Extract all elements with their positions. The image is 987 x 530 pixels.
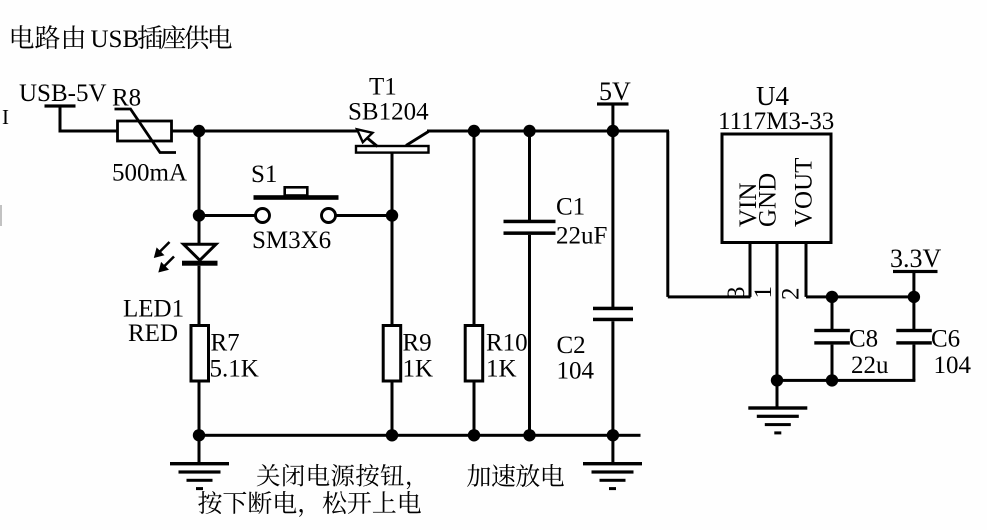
node junction GND pin xyxy=(771,374,783,386)
svg-text:500mA: 500mA xyxy=(112,160,187,187)
ic U4 1117M3-33 body xyxy=(722,134,831,243)
text T1 label xyxy=(369,74,397,101)
node junction S1/base/R9 xyxy=(386,209,398,221)
wire U4 pin 2 VOUT xyxy=(805,243,808,297)
text R8 label xyxy=(112,85,141,112)
wire ground rail xyxy=(198,434,641,437)
text C1 label xyxy=(556,194,585,221)
ground under C2 xyxy=(583,435,642,490)
wire 5V to C2 xyxy=(611,131,614,307)
wire U4 ground rail xyxy=(776,379,916,382)
text note: 关闭电源按钮， xyxy=(257,464,411,489)
text 104 value C2 xyxy=(557,358,595,385)
wire T1 base down xyxy=(391,153,394,216)
svg-text:1K: 1K xyxy=(486,356,517,383)
wire T1 to 5V rail xyxy=(427,130,669,133)
text VIN pin name xyxy=(735,183,762,227)
text S1 label xyxy=(251,161,277,188)
node junction C1 tap xyxy=(523,125,535,137)
capacitor C8 22u xyxy=(814,329,850,345)
text R7 label xyxy=(211,330,240,357)
svg-text:R7: R7 xyxy=(211,330,240,357)
node junction R7 ground xyxy=(193,429,205,441)
svg-text:R10: R10 xyxy=(486,330,528,357)
text pin number 1 xyxy=(750,286,777,299)
wire 5V rail to C1 xyxy=(528,131,531,220)
wire R7 to ground rail xyxy=(198,381,201,435)
wire U4 pin 1 GND xyxy=(776,243,779,381)
wire 5V rail to U4 VIN xyxy=(666,131,750,298)
text LED1 label xyxy=(123,296,184,323)
wire C1 to ground rail xyxy=(528,235,531,435)
power 5V terminal bar xyxy=(597,102,629,131)
text 3.3V label xyxy=(890,244,942,273)
node junction C8 tap xyxy=(826,291,838,303)
svg-text:2: 2 xyxy=(778,288,805,301)
text 5.1K value xyxy=(210,356,259,383)
text C2 label xyxy=(557,332,586,359)
resistor R7 5.1K xyxy=(191,326,209,382)
svg-text:R8: R8 xyxy=(112,85,141,112)
node junction R8/LED branch xyxy=(193,125,205,137)
text U4 label xyxy=(756,81,789,111)
svg-text:1117M3-33: 1117M3-33 xyxy=(718,108,834,135)
node junction C2 ground xyxy=(607,429,619,441)
svg-text:USB-5V: USB-5V xyxy=(19,80,107,107)
wire C2 to ground rail xyxy=(611,321,614,435)
text GND pin name xyxy=(755,173,782,227)
transistor T1 xyxy=(356,129,429,152)
ground under R7 xyxy=(170,435,229,490)
svg-text:U4: U4 xyxy=(756,81,789,111)
led LED1 RED xyxy=(154,242,218,273)
wire junction to LED anode xyxy=(198,216,201,245)
svg-text:RED: RED xyxy=(128,320,178,347)
svg-text:SM3X6: SM3X6 xyxy=(252,227,331,254)
text note: 电路由 USB 插座供电 xyxy=(12,25,232,53)
text SM3X6 value xyxy=(252,227,331,254)
node junction C8 ground xyxy=(826,374,838,386)
text note: 加速放电 xyxy=(467,464,564,487)
wire VOUT to 3.3V xyxy=(806,295,914,298)
wire USB to R8 xyxy=(59,130,118,133)
svg-text:1: 1 xyxy=(750,286,777,299)
wire VOUT rail to C8 xyxy=(831,297,834,329)
text 500mA value xyxy=(112,160,187,187)
capacitor C6 104 xyxy=(896,329,932,345)
wire base junction to R9 xyxy=(391,216,394,326)
svg-text:104: 104 xyxy=(934,352,972,379)
svg-text:C8: C8 xyxy=(849,326,878,353)
svg-text:T1: T1 xyxy=(369,74,397,101)
text 22uF value xyxy=(556,223,607,250)
wire C8 to ground rail xyxy=(831,345,834,381)
ground under U4 xyxy=(748,380,807,434)
svg-text:5.1K: 5.1K xyxy=(210,356,259,383)
node junction 3.3V/C6 xyxy=(908,291,920,303)
node junction C1 ground xyxy=(523,429,535,441)
text 5V label xyxy=(599,77,631,106)
node junction R10 tap xyxy=(468,125,480,137)
text 1K value R9 xyxy=(403,356,434,383)
svg-text:LED1: LED1 xyxy=(123,296,184,323)
text SB1204 value xyxy=(348,99,429,126)
wire 3.3V to C6 xyxy=(912,297,915,329)
wire C6 to ground rail xyxy=(912,345,915,381)
text pin number 3 xyxy=(723,287,750,300)
wire junction to S1 left xyxy=(199,214,255,217)
svg-text:VOUT: VOUT xyxy=(791,158,818,227)
wire branch down to S1 row xyxy=(198,131,201,216)
svg-text:104: 104 xyxy=(557,358,595,385)
svg-text:3: 3 xyxy=(723,287,750,300)
svg-text:3.3V: 3.3V xyxy=(890,244,942,273)
svg-text:C2: C2 xyxy=(557,332,586,359)
svg-text:I: I xyxy=(2,105,9,129)
wire R9 to ground rail xyxy=(391,381,394,435)
svg-text:S1: S1 xyxy=(251,161,277,188)
text C8 label xyxy=(849,326,878,353)
power 3.3V terminal bar xyxy=(893,270,938,297)
svg-text:R9: R9 xyxy=(403,330,432,357)
edge artifact xyxy=(0,205,2,226)
node junction 5V tap xyxy=(607,125,619,137)
svg-text:GND: GND xyxy=(755,173,782,227)
text RED value xyxy=(128,320,178,347)
wire R10 to ground rail xyxy=(473,381,476,435)
node junction R9 ground xyxy=(386,429,398,441)
text pin number 2 xyxy=(778,288,805,301)
text R10 label xyxy=(486,330,528,357)
node junction LED branch xyxy=(193,209,205,221)
svg-text:22u: 22u xyxy=(851,352,889,379)
wire LED cathode to R7 xyxy=(198,266,201,326)
wire S1 right to base junction xyxy=(336,214,392,217)
svg-text:USB: USB xyxy=(91,26,140,53)
svg-text:22uF: 22uF xyxy=(556,223,607,250)
svg-text:1K: 1K xyxy=(403,356,434,383)
wire U4 pin 3 VIN xyxy=(749,243,752,297)
node junction R10 ground xyxy=(468,429,480,441)
resistor R10 1K xyxy=(465,326,483,382)
text R9 label xyxy=(403,330,432,357)
capacitor C2 104 xyxy=(593,307,633,322)
text VOUT pin name xyxy=(791,158,818,227)
svg-text:SB1204: SB1204 xyxy=(348,99,429,126)
capacitor C1 22uF xyxy=(504,220,556,235)
text note: 按下断电，松开上电 xyxy=(198,491,421,517)
connector USB-5V terminal xyxy=(45,104,76,132)
text 22u value xyxy=(851,352,889,379)
text 1117M3-33 value xyxy=(718,108,834,135)
text C6 label xyxy=(931,326,960,353)
text USB-5V label xyxy=(19,80,107,107)
text 104 value C6 xyxy=(934,352,972,379)
fuse R8 500mA xyxy=(115,109,177,153)
switch S1 SM3X6 xyxy=(254,187,339,222)
text 1K value R10 xyxy=(486,356,517,383)
svg-text:C1: C1 xyxy=(556,194,585,221)
text cursor artifact xyxy=(2,105,9,129)
wire 5V rail to R10 xyxy=(473,131,476,326)
svg-text:C6: C6 xyxy=(931,326,960,353)
svg-text:5V: 5V xyxy=(599,77,631,106)
resistor R9 1K xyxy=(383,326,401,382)
wire R8 to T1 xyxy=(171,130,361,133)
